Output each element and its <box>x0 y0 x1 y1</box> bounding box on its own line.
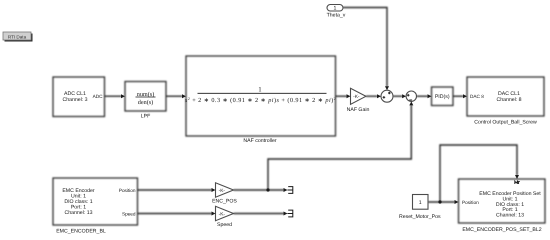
svg-text:-K-: -K- <box>219 211 226 217</box>
svg-text:1: 1 <box>258 87 261 94</box>
svg-text:Channel: 3: Channel: 3 <box>62 97 87 103</box>
svg-text:NAF Gain: NAF Gain <box>347 107 370 113</box>
svg-text:Theta_v: Theta_v <box>327 13 346 19</box>
svg-text:Reset_Motor_Pos: Reset_Motor_Pos <box>399 214 441 220</box>
svg-text:DAC 8: DAC 8 <box>470 94 484 99</box>
svg-text:Position: Position <box>462 200 479 205</box>
svg-text:PID(s): PID(s) <box>435 94 450 100</box>
svg-text:EMC_ENCODER_POS_SET_BL2: EMC_ENCODER_POS_SET_BL2 <box>462 227 541 233</box>
svg-text:RTI Data: RTI Data <box>8 34 27 39</box>
svg-text:LPF: LPF <box>141 114 151 120</box>
svg-text:-K-: -K- <box>353 94 360 100</box>
svg-text:ENC_POS: ENC_POS <box>212 199 237 205</box>
svg-text:ADC: ADC <box>93 94 104 99</box>
svg-text:s2 + 2 ∗ 0.3 ∗ (0.91 ∗ 2 ∗ pi): s2 + 2 ∗ 0.3 ∗ (0.91 ∗ 2 ∗ pi)s + (0.91 … <box>185 96 336 104</box>
svg-text:den(s): den(s) <box>138 99 153 106</box>
svg-text:Position: Position <box>119 188 136 193</box>
svg-text:Control Output_Ball_Screw: Control Output_Ball_Screw <box>474 120 537 126</box>
svg-text:Channel: 13: Channel: 13 <box>496 213 524 219</box>
svg-text:NAF controller: NAF controller <box>243 138 276 144</box>
svg-text:Speed: Speed <box>122 211 136 216</box>
svg-text:Channel: 8: Channel: 8 <box>496 97 521 103</box>
svg-text:Speed: Speed <box>217 222 232 228</box>
svg-text:-K-: -K- <box>219 188 226 194</box>
svg-text:1: 1 <box>334 6 337 12</box>
svg-text:Channel: 13: Channel: 13 <box>65 210 93 216</box>
svg-text:EMC_ENCODER_BL: EMC_ENCODER_BL <box>56 229 106 235</box>
svg-text:1: 1 <box>419 200 422 206</box>
